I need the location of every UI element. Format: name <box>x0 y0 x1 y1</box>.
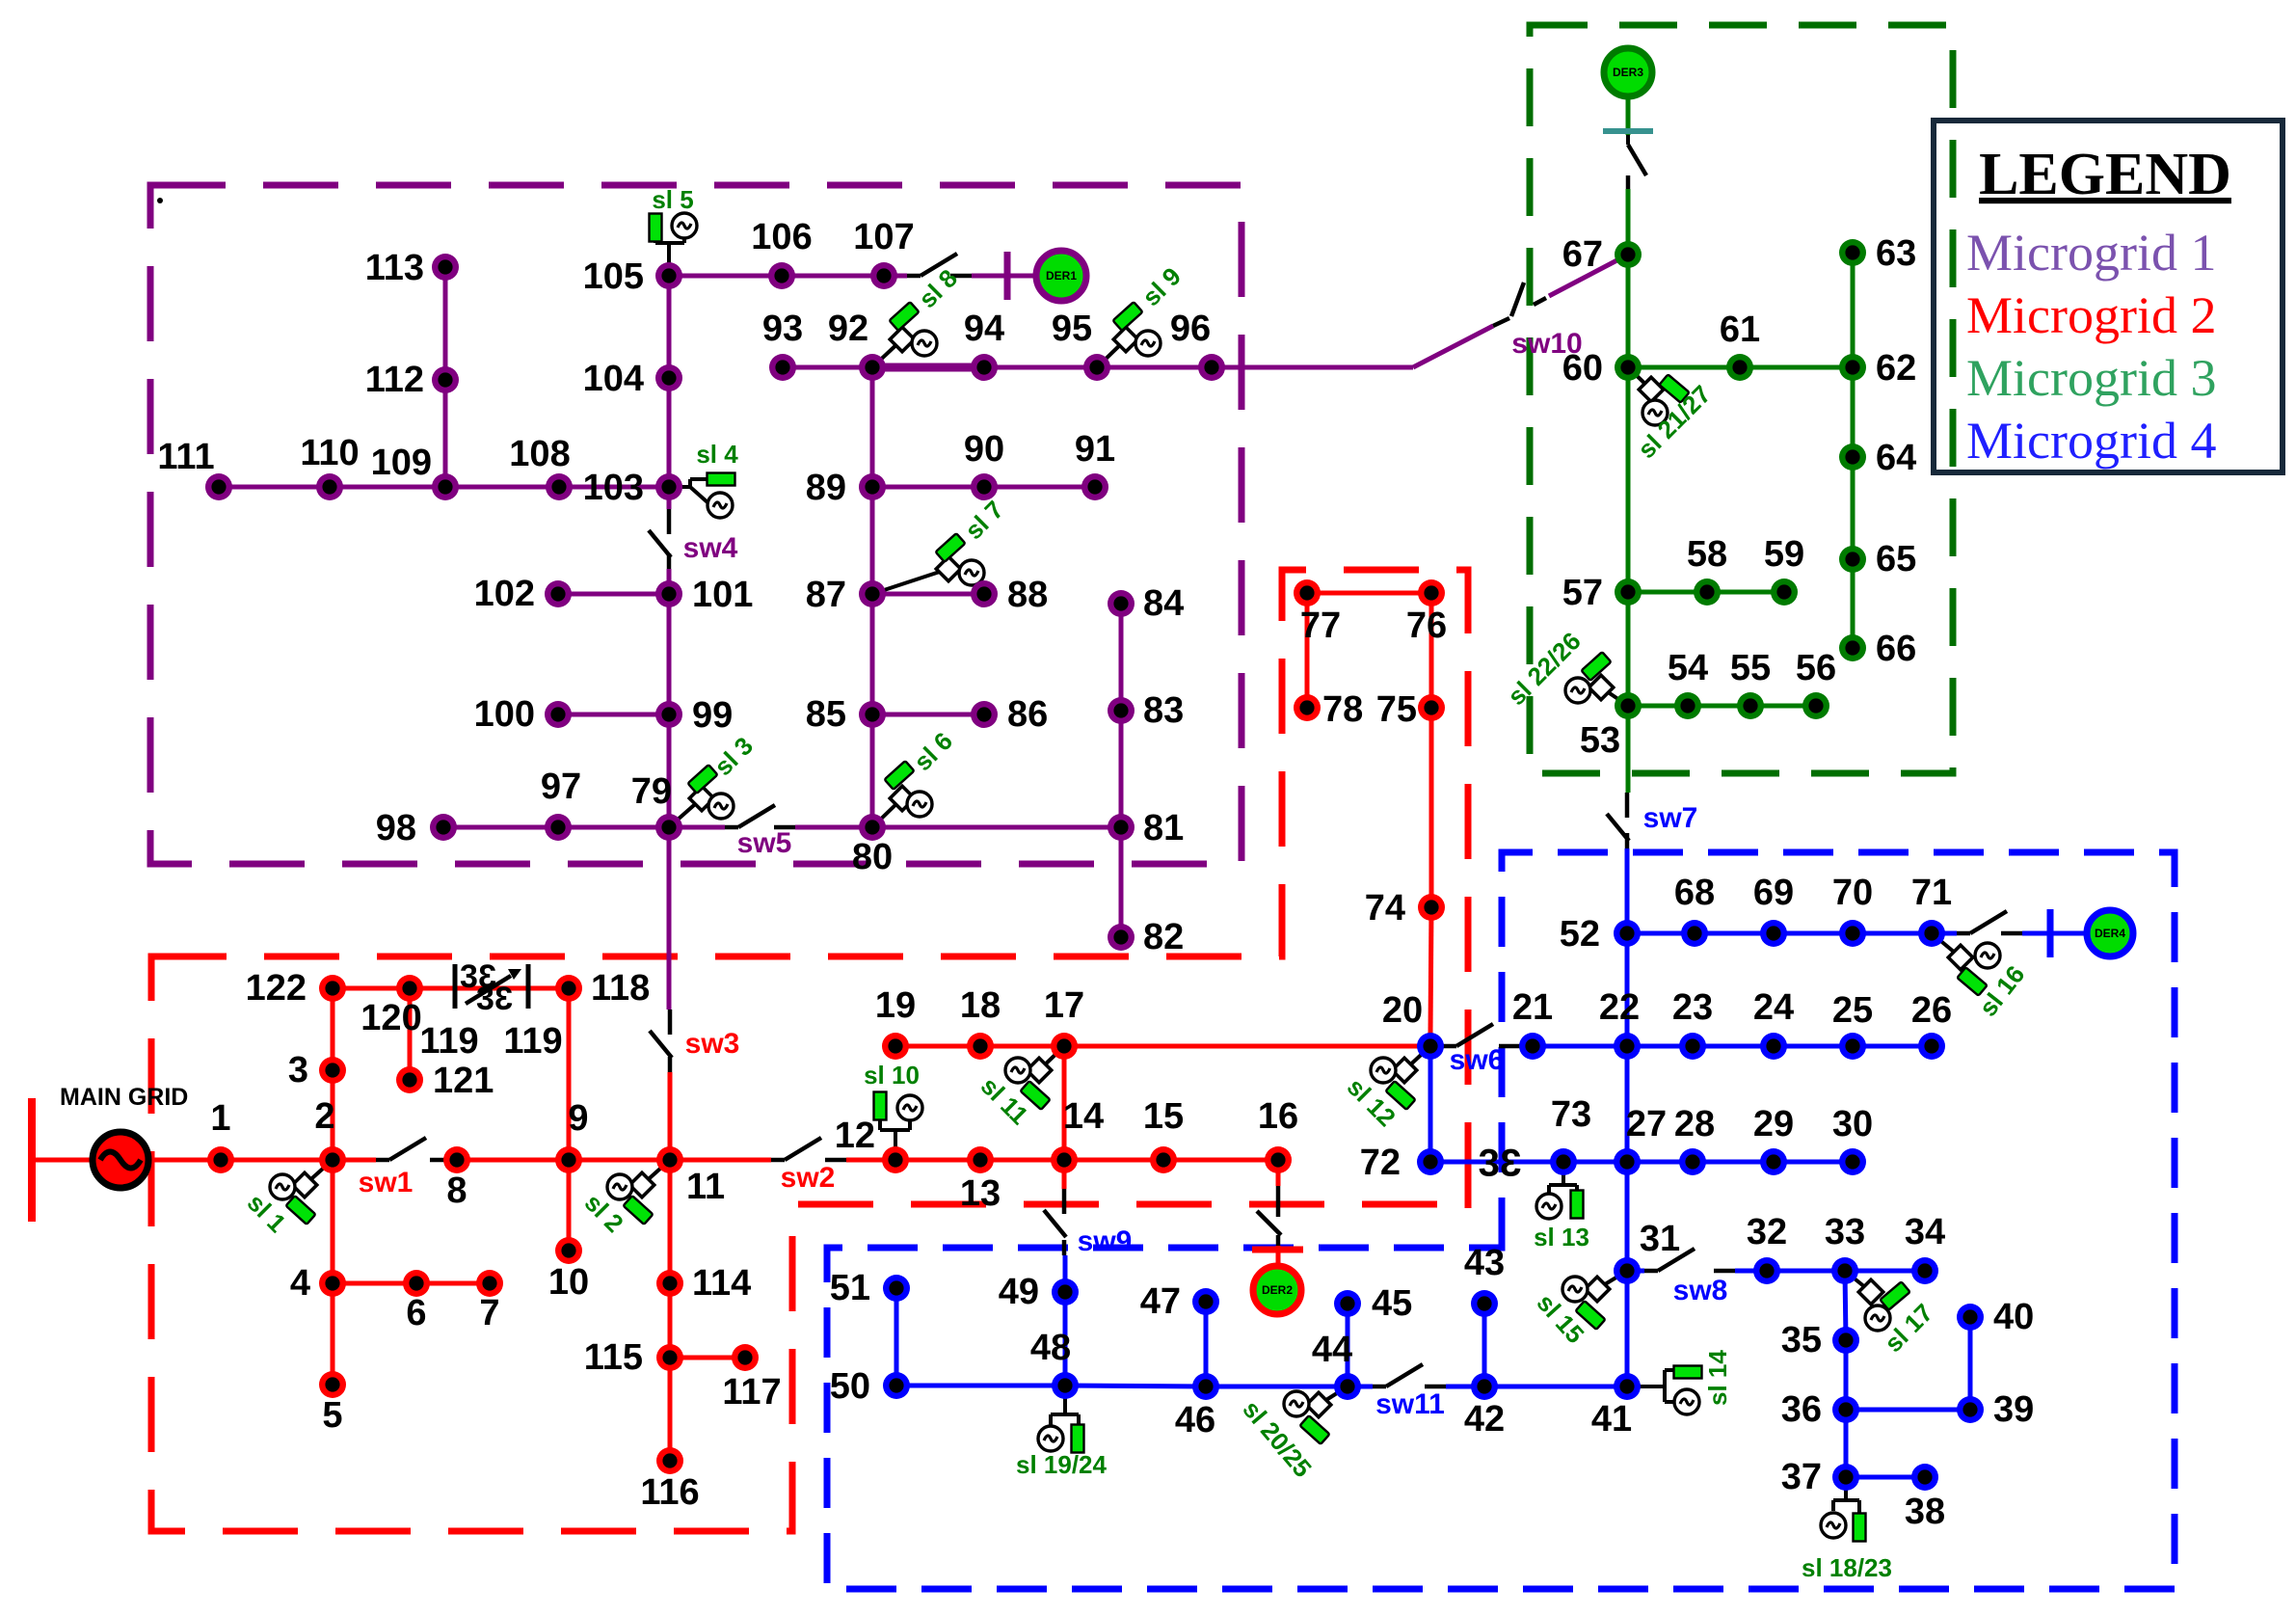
svg-text:90: 90 <box>964 429 1004 470</box>
svg-text:15: 15 <box>1143 1096 1184 1137</box>
wire 37-38 <box>1846 1475 1925 1480</box>
svg-text:47: 47 <box>1140 1281 1181 1322</box>
svg-text:102: 102 <box>474 574 535 614</box>
wire 79-sw5 <box>669 825 725 830</box>
source/load sl 12 at node 20 <box>1342 1046 1430 1132</box>
node 95 <box>1083 354 1110 381</box>
node 60 <box>1615 354 1642 381</box>
DER2 connection bar <box>1252 1247 1303 1253</box>
wire 14-sw9 (red stub) <box>1062 1160 1067 1189</box>
wire 69-70 <box>1774 931 1853 936</box>
wire 21-22 <box>1533 1044 1627 1049</box>
svg-text:sl 18/23: sl 18/23 <box>1802 1553 1892 1582</box>
wire 120-118 (through 119 caps) <box>410 986 569 991</box>
wire 74-20 <box>1430 907 1431 1034</box>
svg-text:97: 97 <box>541 767 581 807</box>
wire 2-4 <box>331 1160 335 1283</box>
wire busbar-MAIN GRID <box>32 1158 92 1163</box>
svg-text:81: 81 <box>1143 808 1184 848</box>
wire 81-82 <box>1119 827 1124 937</box>
svg-text:38: 38 <box>1905 1492 1945 1532</box>
node 41 <box>1614 1373 1641 1400</box>
svg-text:sl 4: sl 4 <box>696 440 738 469</box>
svg-text:3: 3 <box>288 1050 308 1090</box>
wire 73-27 <box>1563 1160 1627 1165</box>
node 110 <box>316 473 343 500</box>
svg-text:sw9: sw9 <box>1078 1225 1133 1257</box>
wire 28-29 <box>1693 1160 1774 1165</box>
node 9 <box>555 1146 582 1173</box>
wire 113-112 <box>443 267 448 380</box>
wire 105-104 <box>667 276 672 378</box>
node 92 <box>859 354 886 381</box>
wire 118-9 <box>567 988 572 1160</box>
svg-text:103: 103 <box>583 468 644 508</box>
wire 112-109 <box>443 380 448 487</box>
svg-text:16: 16 <box>1258 1096 1298 1137</box>
wire 79-sw3 (purple drop) <box>667 827 672 1009</box>
svg-text:17: 17 <box>1044 985 1084 1026</box>
microgrid 2 boundary solid segment near node 72 <box>1465 1129 1472 1208</box>
wire 31-41 <box>1625 1271 1630 1386</box>
wire 16-switch <box>1276 1160 1281 1186</box>
wire 1-2 <box>221 1158 333 1163</box>
node 10 <box>555 1237 582 1264</box>
svg-text:63: 63 <box>1876 233 1916 274</box>
node 4 <box>319 1270 346 1297</box>
wire 41-42 <box>1484 1385 1627 1389</box>
node 109 <box>432 473 459 500</box>
node 56 <box>1802 692 1829 719</box>
wire 55-56 <box>1750 704 1816 709</box>
wire 108-103 <box>559 485 669 490</box>
svg-text:10: 10 <box>548 1262 589 1303</box>
svg-text:54: 54 <box>1668 648 1708 688</box>
svg-text:sl 5: sl 5 <box>652 185 693 214</box>
node 42 <box>1471 1373 1498 1400</box>
source/load sl 1 at node 2 <box>242 1160 333 1238</box>
node 121 <box>396 1066 423 1093</box>
node 55 <box>1737 692 1764 719</box>
source/load sl 7 at node 87 <box>872 495 1009 594</box>
node 18 <box>967 1033 994 1060</box>
node 19 <box>882 1033 909 1060</box>
wire 111-110 <box>219 485 330 490</box>
node 17 <box>1051 1033 1078 1060</box>
wire 115-116 <box>668 1358 673 1461</box>
wire 2-sw1 <box>333 1158 376 1163</box>
node 120 <box>396 975 423 1002</box>
svg-text:74: 74 <box>1365 888 1405 929</box>
wire 22-23 <box>1627 1044 1693 1049</box>
svg-text:11: 11 <box>686 1167 725 1207</box>
wire 84-83 <box>1119 604 1124 711</box>
node 98 <box>430 814 457 841</box>
svg-text:75: 75 <box>1376 689 1417 730</box>
switch on DER2 feed <box>1257 1186 1281 1246</box>
svg-text:82: 82 <box>1143 917 1184 957</box>
wire 14-15 <box>1064 1158 1163 1163</box>
node 97 <box>545 814 572 841</box>
node 80 <box>859 814 886 841</box>
svg-text:117: 117 <box>722 1372 781 1413</box>
node 8 <box>443 1146 470 1173</box>
svg-text:92: 92 <box>828 309 868 349</box>
node 93 <box>769 354 796 381</box>
node 105 <box>655 262 682 289</box>
node 54 <box>1674 692 1701 719</box>
svg-text:23: 23 <box>1672 987 1713 1028</box>
svg-text:sw3: sw3 <box>685 1028 740 1060</box>
switch sw11 <box>1373 1364 1446 1386</box>
svg-text:110: 110 <box>300 433 359 473</box>
node 86 <box>971 701 998 728</box>
node 20 <box>1417 1033 1444 1060</box>
node 101 <box>655 580 682 607</box>
wire 115-117 <box>670 1356 745 1360</box>
svg-text:106: 106 <box>751 217 812 257</box>
wire 33-35 <box>1845 1271 1846 1340</box>
source/load sl 21/27 at node 60 <box>1628 367 1717 464</box>
node 76 <box>1418 579 1445 606</box>
switch on DER1 feed <box>907 254 972 276</box>
wire 58-59 <box>1707 590 1784 595</box>
switch sw4 <box>649 509 671 569</box>
node 21 <box>1519 1033 1546 1060</box>
svg-text:9: 9 <box>568 1098 588 1139</box>
svg-text:43: 43 <box>1464 1243 1505 1283</box>
wire 70-71 <box>1853 931 1932 936</box>
wire 52-68 <box>1627 931 1695 936</box>
svg-text:DER1: DER1 <box>1046 269 1077 283</box>
wire sw9-49 (blue) <box>1063 1255 1068 1292</box>
node 47 <box>1192 1288 1219 1315</box>
DER4 generator <box>2087 910 2133 956</box>
node 106 <box>768 262 795 289</box>
source/load sl 6 at node 80 <box>872 726 958 827</box>
svg-text:109: 109 <box>371 443 432 483</box>
node 91 <box>1081 473 1108 500</box>
svg-text:19: 19 <box>875 985 916 1026</box>
wire 92-94 (thick) <box>872 363 984 372</box>
svg-text:3: 3 <box>1500 1142 1521 1184</box>
wire 4-6 <box>333 1281 416 1286</box>
node 116 <box>656 1447 683 1474</box>
svg-text:13: 13 <box>960 1173 1001 1214</box>
svg-text:119: 119 <box>503 1021 562 1062</box>
svg-text:Microgrid 4: Microgrid 4 <box>1966 412 2216 470</box>
wire 9-11 <box>569 1158 670 1163</box>
wire 47-46 <box>1204 1302 1209 1386</box>
node 87 <box>859 580 886 607</box>
node 40 <box>1957 1304 1984 1331</box>
source/load sl 15 at node 31 <box>1532 1271 1627 1349</box>
wire 14-17 <box>1062 1046 1067 1160</box>
switch sw1 <box>376 1138 451 1160</box>
svg-text:42: 42 <box>1464 1399 1505 1440</box>
svg-text:88: 88 <box>1007 575 1048 615</box>
wire 45-44 <box>1346 1304 1350 1386</box>
svg-text:29: 29 <box>1753 1104 1794 1144</box>
wire 95-96 <box>1097 365 1212 370</box>
wire switch-67 <box>1626 189 1631 255</box>
microgrid 4 boundary (blue dashed polygon) <box>827 852 2175 1589</box>
node 15 <box>1150 1146 1177 1173</box>
node 108 <box>546 473 573 500</box>
wire 18-17 <box>980 1044 1064 1049</box>
svg-text:18: 18 <box>960 985 1001 1026</box>
node 45 <box>1334 1290 1361 1317</box>
svg-text:LEGEND: LEGEND <box>1979 142 2231 207</box>
wire 9-10 <box>567 1160 572 1251</box>
svg-text:sw5: sw5 <box>737 827 792 859</box>
svg-text:12: 12 <box>835 1116 875 1156</box>
wire 11-114 <box>668 1160 673 1283</box>
node 103 <box>655 473 682 500</box>
node 107 <box>870 262 897 289</box>
switch sw7 <box>1607 793 1629 848</box>
node 69 <box>1760 920 1787 947</box>
svg-text:1: 1 <box>210 1098 230 1139</box>
svg-text:39: 39 <box>1993 1389 2034 1430</box>
node 72 <box>1417 1148 1444 1175</box>
wire 57-58 <box>1628 590 1707 595</box>
wire switch-DER4 <box>2022 931 2086 936</box>
node 94 <box>971 354 998 381</box>
node 53 <box>1615 692 1642 719</box>
svg-text:40: 40 <box>1993 1297 2034 1337</box>
wire 76-75 <box>1429 593 1434 708</box>
node 68 <box>1681 920 1708 947</box>
node 61 <box>1726 354 1753 381</box>
wire 97-79 <box>558 825 669 830</box>
node 50 <box>883 1372 910 1399</box>
wire 87-88 <box>872 592 984 597</box>
node 62 <box>1839 354 1866 381</box>
svg-text:14: 14 <box>1063 1096 1104 1137</box>
svg-text:86: 86 <box>1007 694 1048 735</box>
microgrid 2 boundary (red dashed polygon) <box>151 570 1468 1531</box>
node 46 <box>1192 1373 1219 1400</box>
node 58 <box>1694 579 1721 606</box>
node 49 <box>1052 1279 1079 1305</box>
svg-text:36: 36 <box>1781 1389 1822 1430</box>
svg-text:77: 77 <box>1300 606 1341 646</box>
wire 83-81 <box>1119 711 1124 827</box>
svg-text:21: 21 <box>1512 987 1553 1028</box>
svg-text:2: 2 <box>314 1096 334 1137</box>
svg-text:sw4: sw4 <box>683 532 738 564</box>
node 14 <box>1051 1146 1078 1173</box>
svg-text:sw7: sw7 <box>1643 802 1698 834</box>
node 79 <box>655 814 682 841</box>
svg-text:50: 50 <box>830 1366 870 1407</box>
switch sw9 <box>1044 1189 1066 1255</box>
svg-text:85: 85 <box>806 694 846 735</box>
node 85 <box>859 701 886 728</box>
wire 36-37 <box>1844 1410 1849 1477</box>
wire 48-50 <box>896 1384 1065 1388</box>
node 84 <box>1108 590 1135 617</box>
svg-text:sw6: sw6 <box>1450 1044 1505 1076</box>
DER4 connection bar <box>2047 909 2054 957</box>
svg-text:sl 10: sl 10 <box>864 1061 920 1090</box>
node 57 <box>1615 579 1642 606</box>
svg-text:83: 83 <box>1143 690 1184 731</box>
node 6 <box>403 1270 430 1297</box>
node 113 <box>432 254 459 281</box>
node 13 <box>967 1146 994 1173</box>
node 104 <box>655 364 682 391</box>
svg-text:35: 35 <box>1781 1320 1822 1360</box>
wire 96-sw10 horizontal <box>1212 365 1413 370</box>
svg-text:45: 45 <box>1372 1283 1412 1324</box>
node 25 <box>1839 1033 1866 1060</box>
wire 99-79 <box>667 714 672 827</box>
svg-text:52: 52 <box>1560 914 1600 955</box>
stray dot top-left of purple box <box>157 198 163 203</box>
node 32 <box>1753 1257 1780 1284</box>
node 44 <box>1334 1373 1361 1400</box>
wire switch-DER2 <box>1276 1246 1281 1268</box>
svg-text:79: 79 <box>631 771 672 812</box>
wire 25-26 <box>1853 1044 1932 1049</box>
svg-text:41: 41 <box>1591 1399 1632 1440</box>
source/load sl 16 at node 71 <box>1932 933 2030 1022</box>
main grid bus bar <box>28 1098 36 1222</box>
node 73 <box>1550 1148 1577 1175</box>
source/load sl 19/24 at node 48 <box>1016 1386 1108 1479</box>
svg-text:69: 69 <box>1753 873 1794 913</box>
wire 27-31 <box>1625 1162 1630 1271</box>
node 29 <box>1760 1148 1787 1175</box>
switch on DER3 feed <box>1628 145 1646 189</box>
svg-text:71: 71 <box>1911 873 1952 913</box>
node 65 <box>1839 546 1866 573</box>
switch on DER4 feed <box>1957 911 2022 933</box>
DER3 generator <box>1604 48 1652 96</box>
wire sw1-8 <box>451 1158 457 1163</box>
node 35 <box>1832 1327 1859 1354</box>
wire 46-48 <box>1065 1386 1206 1386</box>
wire 4-5 <box>331 1283 335 1385</box>
svg-text:122: 122 <box>246 968 307 1009</box>
node 37 <box>1832 1464 1859 1491</box>
wire 90-91 <box>984 485 1095 490</box>
node 36 <box>1832 1396 1859 1423</box>
svg-text:66: 66 <box>1876 629 1916 669</box>
svg-text:65: 65 <box>1876 539 1916 579</box>
svg-text:53: 53 <box>1580 720 1620 761</box>
svg-text:31: 31 <box>1640 1219 1680 1259</box>
svg-text:115: 115 <box>584 1337 643 1378</box>
node 43 <box>1471 1290 1498 1317</box>
source/load sl 9 at node 95 <box>1097 261 1187 367</box>
wire 85-80 <box>870 714 875 827</box>
svg-text:68: 68 <box>1674 873 1715 913</box>
svg-text:111: 111 <box>157 437 214 477</box>
svg-text:MAIN GRID: MAIN GRID <box>60 1084 188 1111</box>
node 90 <box>971 473 998 500</box>
wire 43-42 <box>1482 1304 1487 1386</box>
source/load sl 20/25 at node 44 <box>1237 1386 1348 1483</box>
wire 31-sw8 <box>1627 1269 1644 1274</box>
node 22 <box>1614 1033 1641 1060</box>
svg-text:sw10: sw10 <box>1511 328 1582 360</box>
svg-text:DER2: DER2 <box>1262 1283 1293 1297</box>
node 118 <box>555 975 582 1002</box>
svg-text:107: 107 <box>853 217 914 257</box>
node 102 <box>545 580 572 607</box>
wire 51-50 <box>894 1288 899 1386</box>
source/load sl 14 at node 41 <box>1627 1350 1732 1414</box>
node 88 <box>971 580 998 607</box>
svg-text:59: 59 <box>1764 534 1804 575</box>
node 27 <box>1614 1148 1641 1175</box>
wire 85-86 <box>872 713 984 717</box>
wire sw6-21 <box>1520 1044 1533 1049</box>
source/load sl 17 at node 33 <box>1845 1271 1938 1358</box>
svg-text:sw8: sw8 <box>1673 1275 1728 1306</box>
svg-text:8: 8 <box>446 1171 467 1211</box>
svg-text:58: 58 <box>1687 534 1727 575</box>
wire 92-89 <box>870 367 875 487</box>
wire 89-87 <box>870 487 875 594</box>
wire 100-99 <box>558 713 669 717</box>
node 23 <box>1679 1033 1706 1060</box>
svg-text:99: 99 <box>692 695 733 736</box>
wire 105-106 <box>669 274 782 279</box>
wire 89-90 <box>872 485 984 490</box>
svg-text:Microgrid 1: Microgrid 1 <box>1966 224 2216 282</box>
svg-text:98: 98 <box>376 808 416 848</box>
wire 104-103 <box>667 378 672 487</box>
svg-text:34: 34 <box>1905 1212 1945 1252</box>
transformer between 72 and 73 <box>1479 1142 1522 1184</box>
svg-text:4: 4 <box>290 1263 310 1304</box>
wire 33-34 <box>1845 1269 1925 1274</box>
source/load sl 11 at node 17 <box>975 1046 1064 1130</box>
microgrid 1 boundary (purple dashed box) <box>150 185 1241 864</box>
svg-text:108: 108 <box>509 434 570 474</box>
svg-text:27: 27 <box>1626 1104 1667 1144</box>
wire 8-9 <box>457 1158 569 1163</box>
svg-text:104: 104 <box>583 359 644 399</box>
wire 102-101 <box>558 592 669 597</box>
svg-text:48: 48 <box>1030 1328 1071 1368</box>
svg-text:89: 89 <box>806 468 846 508</box>
switch sw3 <box>650 1009 672 1072</box>
wire 32-33 <box>1767 1269 1845 1274</box>
source/load sl 13 at node 73 <box>1534 1162 1589 1252</box>
svg-text:100: 100 <box>474 694 535 735</box>
DER2 generator <box>1253 1266 1301 1314</box>
svg-text:62: 62 <box>1876 348 1916 389</box>
wire 52-22 <box>1625 933 1630 1046</box>
source/load sl 22/26 at node 53 <box>1502 627 1628 712</box>
wire 98-97 <box>443 825 558 830</box>
svg-text:101: 101 <box>692 575 753 615</box>
wire 94-95 <box>984 365 1097 370</box>
wire 39-40 <box>1968 1317 1973 1410</box>
DER1 generator <box>1036 251 1086 301</box>
svg-text:22: 22 <box>1599 987 1640 1028</box>
wire 68-69 <box>1695 931 1774 936</box>
svg-text:112: 112 <box>365 360 424 400</box>
wire 71-switch <box>1932 931 1957 936</box>
node 78 <box>1294 694 1321 721</box>
node 2 <box>319 1146 346 1173</box>
